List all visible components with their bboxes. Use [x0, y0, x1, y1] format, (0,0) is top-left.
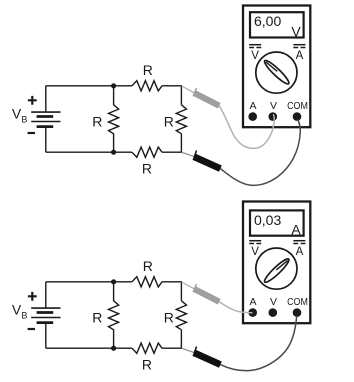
wire: bottom rail node to battery [46, 151, 132, 153]
black probe collar [193, 347, 196, 357]
battery minus sign [28, 328, 35, 330]
resistor R (middle vertical) [109, 282, 119, 348]
resistor R (top horizontal) [132, 277, 162, 287]
black probe collar [193, 151, 196, 161]
multimeter case [243, 6, 310, 128]
resistor R (top horizontal) [132, 81, 162, 91]
battery minus sign [28, 132, 35, 134]
selector dial circle [256, 248, 297, 289]
dial knob pointing to V [262, 58, 291, 86]
dial knob ridge line [266, 62, 277, 71]
terminal jack COM [293, 308, 302, 317]
node junction (top) [111, 83, 116, 88]
gray probe tip [182, 282, 195, 289]
terminal jack A [248, 112, 257, 121]
resistor R (bottom horizontal) [132, 147, 162, 157]
svg-text:6,00: 6,00 [254, 13, 281, 29]
svg-text:R: R [92, 114, 102, 130]
svg-text:V: V [12, 302, 22, 318]
battery V_B (source 1) [31, 86, 60, 152]
svg-text:A: A [296, 246, 304, 258]
svg-text:R: R [164, 310, 174, 326]
wire: right branch lower lead to bottom corner [162, 134, 181, 152]
gray probe tip [182, 86, 195, 93]
svg-text:A: A [296, 50, 304, 62]
terminal jack V [269, 308, 278, 317]
svg-text:R: R [143, 62, 153, 78]
black test lead wire to COM [220, 120, 300, 186]
gray test lead wire to A [219, 302, 252, 313]
svg-text:A: A [291, 221, 301, 237]
wire: top rail resistor to corner, down to right resistor [162, 86, 181, 105]
black probe body [195, 353, 221, 365]
black test lead wire to COM [220, 317, 296, 371]
svg-text:R: R [92, 310, 102, 326]
gray probe body [195, 289, 220, 302]
DC voltage symbol V [249, 44, 261, 46]
battery plus sign [28, 96, 37, 105]
multimeter display [250, 210, 304, 235]
DC voltage symbol V [249, 240, 261, 242]
DC current symbol A [293, 240, 305, 242]
svg-text:R: R [143, 258, 153, 274]
gray test lead wire to V [219, 106, 274, 149]
black probe tip [182, 152, 195, 156]
resistor R (right vertical) [176, 105, 186, 134]
terminal jack A [248, 308, 257, 317]
terminal jack V [269, 112, 278, 121]
svg-text:A: A [249, 100, 256, 112]
wire: top rail battery to node [46, 281, 132, 283]
gray probe collar [193, 284, 196, 292]
svg-text:0,03: 0,03 [254, 212, 281, 228]
terminal jack COM [293, 112, 302, 121]
svg-text:R: R [142, 161, 152, 177]
black probe tip [182, 348, 195, 352]
svg-text:V: V [251, 246, 259, 258]
svg-text:V: V [251, 50, 259, 62]
svg-text:B: B [21, 114, 27, 124]
wire: top rail battery to node [46, 85, 132, 87]
svg-text:B: B [21, 310, 27, 320]
svg-text:A: A [249, 296, 256, 308]
DC current symbol A [293, 44, 305, 46]
svg-text:V: V [12, 106, 22, 122]
dial knob ridge line [276, 261, 287, 270]
svg-text:V: V [270, 296, 277, 308]
wire: bottom rail node to battery [46, 347, 132, 349]
wire: right branch lower lead to bottom corner [162, 330, 181, 348]
gray probe body [195, 93, 220, 106]
resistor R (right vertical) [176, 301, 186, 330]
black probe body [195, 157, 221, 169]
battery V_B (source 2) [31, 282, 60, 348]
svg-text:V: V [291, 23, 301, 39]
dial knob pointing to A [262, 257, 291, 285]
resistor R (bottom horizontal) [132, 343, 162, 353]
multimeter case [243, 202, 310, 324]
node junction (top) [111, 279, 116, 284]
svg-text:COM: COM [287, 101, 308, 113]
svg-text:V: V [270, 100, 277, 112]
wire: top rail resistor to corner, down to right resistor [162, 282, 181, 301]
svg-text:R: R [164, 114, 174, 130]
resistor R (middle vertical) [109, 86, 119, 152]
battery plus sign [28, 292, 37, 301]
svg-text:COM: COM [287, 297, 308, 309]
node junction (bottom) [111, 150, 116, 155]
svg-text:R: R [142, 357, 152, 373]
node junction (bottom) [111, 346, 116, 351]
selector dial circle [256, 52, 297, 93]
multimeter display [250, 12, 304, 37]
gray probe collar [193, 88, 196, 96]
